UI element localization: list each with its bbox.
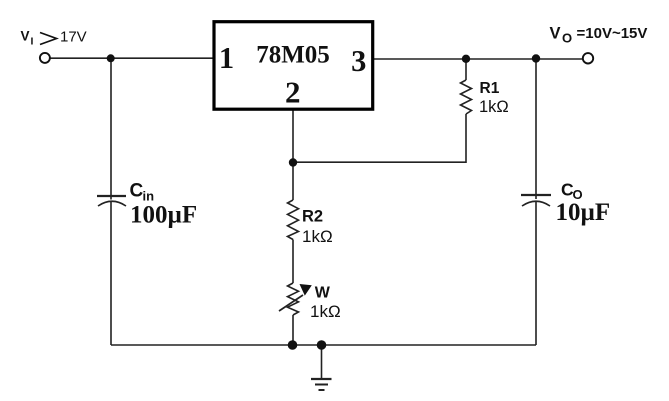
svg-text:W: W: [315, 285, 331, 302]
svg-text:17V: 17V: [60, 29, 87, 46]
svg-text:O: O: [562, 31, 572, 46]
svg-text:R1: R1: [480, 80, 500, 97]
svg-text:1kΩ: 1kΩ: [302, 227, 333, 246]
svg-text:I: I: [31, 36, 34, 48]
svg-text:3: 3: [351, 44, 366, 78]
svg-text:V: V: [550, 24, 561, 42]
svg-text:10µF: 10µF: [556, 199, 611, 226]
svg-text:78M05: 78M05: [256, 42, 330, 69]
svg-text:1kΩ: 1kΩ: [310, 302, 341, 321]
svg-text:1kΩ: 1kΩ: [479, 98, 509, 116]
svg-text:R2: R2: [302, 208, 323, 226]
svg-text:=10V~15V: =10V~15V: [577, 25, 648, 42]
svg-text:C: C: [130, 181, 144, 202]
svg-text:1: 1: [219, 41, 234, 75]
svg-text:V: V: [21, 29, 30, 44]
svg-text:2: 2: [285, 75, 301, 110]
svg-text:100µF: 100µF: [130, 202, 197, 229]
